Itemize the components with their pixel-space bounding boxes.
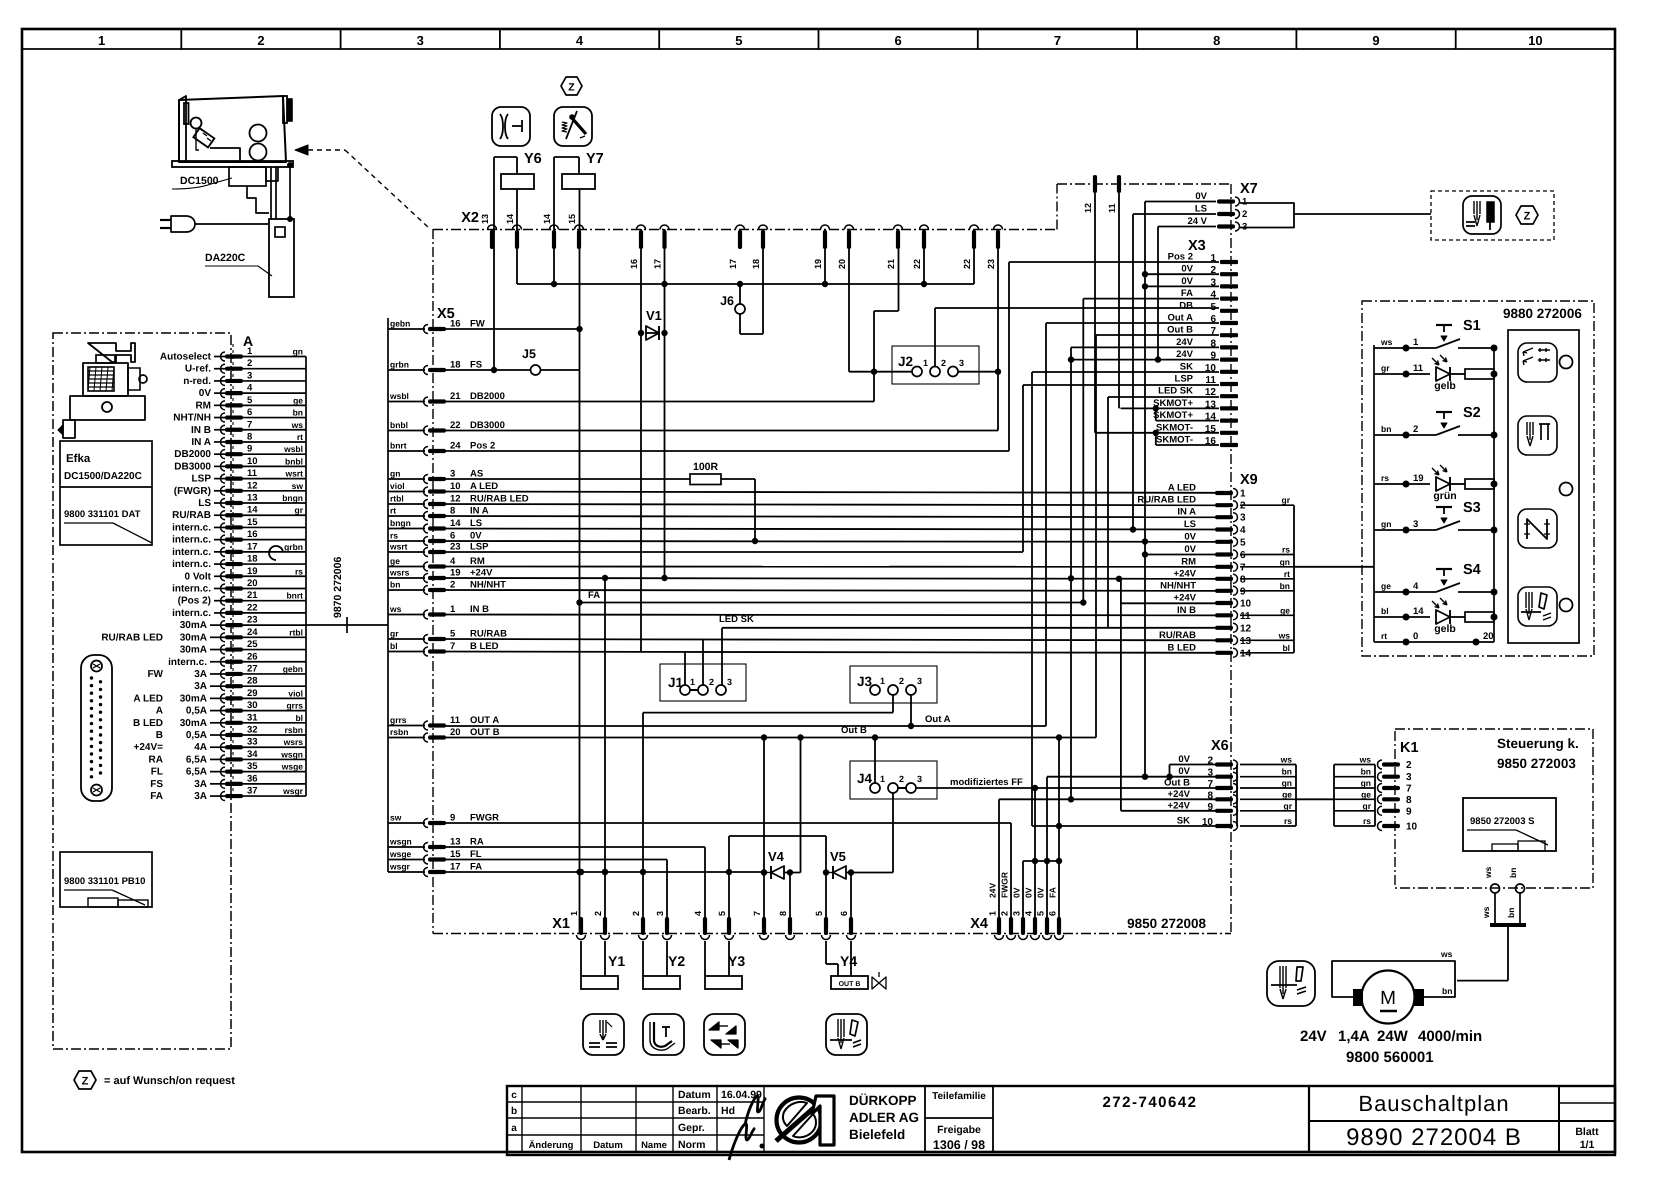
svg-text:RU/RAB: RU/RAB xyxy=(1159,630,1196,641)
connector X1 pin 2 xyxy=(603,917,607,935)
svg-text:wsrt: wsrt xyxy=(389,542,408,552)
connector X3 pin 7 Out B xyxy=(1220,333,1238,337)
svg-text:Y6: Y6 xyxy=(524,151,542,167)
svg-text:rs: rs xyxy=(1284,816,1292,826)
connector X2 pin 17 xyxy=(738,230,742,249)
connector A pin 32 xyxy=(225,733,243,737)
wire X4-2 FWGR riser xyxy=(1010,823,1012,920)
jumper J1 xyxy=(660,664,746,701)
wire X7-2 LS to Z option xyxy=(1133,213,1216,215)
svg-text:18: 18 xyxy=(450,360,461,371)
svg-text:n-red.: n-red. xyxy=(183,376,211,387)
connector X5 pin 2 NH/NHT xyxy=(388,589,425,591)
svg-text:gn: gn xyxy=(390,469,400,479)
svg-text:bl: bl xyxy=(1282,643,1290,653)
svg-text:FS: FS xyxy=(470,360,482,371)
connector A pin 1 xyxy=(225,354,243,358)
svg-text:8: 8 xyxy=(1207,790,1213,801)
svg-text:SKMOT+: SKMOT+ xyxy=(1153,410,1193,421)
svg-text:0V: 0V xyxy=(1184,544,1196,555)
svg-text:FA: FA xyxy=(1048,887,1058,898)
connector X9 pin 5 0V xyxy=(1215,540,1233,544)
connector X1 pin 7 xyxy=(762,917,766,935)
wire DB2000 xyxy=(429,401,874,403)
connector K1 pin 8 xyxy=(1334,798,1375,800)
svg-text:3A: 3A xyxy=(194,669,207,680)
svg-text:+24V: +24V xyxy=(1168,789,1191,800)
svg-text:3A: 3A xyxy=(194,779,207,790)
svg-text:23: 23 xyxy=(986,259,996,269)
svg-text:grbn: grbn xyxy=(390,360,409,370)
svg-text:6: 6 xyxy=(839,911,849,916)
svg-text:viol: viol xyxy=(288,688,303,698)
svg-text:9850 272003: 9850 272003 xyxy=(1497,756,1576,771)
svg-text:LSP: LSP xyxy=(1175,374,1194,385)
svg-text:9870 272006: 9870 272006 xyxy=(332,557,344,618)
svg-text:3: 3 xyxy=(917,676,922,686)
svg-text:Y4: Y4 xyxy=(840,953,857,969)
connector A pin 24 xyxy=(225,635,243,639)
connector X3 pin 3 0V xyxy=(1220,284,1238,288)
motor wiring rectangle xyxy=(1332,961,1455,997)
Duerkopp Adler logo xyxy=(777,1098,822,1143)
svg-text:0V: 0V xyxy=(1036,887,1046,898)
connector A pin 22 xyxy=(225,611,243,615)
svg-text:Teilefamilie: Teilefamilie xyxy=(932,1091,986,1102)
svg-text:FW: FW xyxy=(147,669,163,680)
panel 9880 272006 dashed enclosure xyxy=(1362,301,1594,656)
connector A pin 9 xyxy=(225,452,243,456)
connector X1 pin 3 xyxy=(665,917,669,935)
connector K1 pin 10 xyxy=(1334,825,1375,827)
wire LS xyxy=(429,529,1216,530)
svg-text:21: 21 xyxy=(450,391,461,402)
svg-text:B LED: B LED xyxy=(470,641,499,652)
connector A pin 33 xyxy=(225,745,243,749)
svg-text:1,4A: 1,4A xyxy=(1338,1028,1370,1045)
svg-text:5: 5 xyxy=(735,33,742,48)
svg-text:Gepr.: Gepr. xyxy=(678,1122,705,1134)
svg-text:2: 2 xyxy=(899,676,904,686)
svg-text:6: 6 xyxy=(247,407,252,418)
svg-text:OUT B: OUT B xyxy=(470,727,500,738)
connector X3 pin 5 DB xyxy=(1220,309,1238,313)
connector A pin 13 xyxy=(225,501,243,505)
svg-text:Efka: Efka xyxy=(66,453,91,465)
svg-text:14: 14 xyxy=(247,505,258,516)
X5 cable bus vertical xyxy=(387,318,389,872)
svg-text:3: 3 xyxy=(917,774,922,784)
svg-text:8: 8 xyxy=(778,911,788,916)
wire 0V xyxy=(429,540,1216,543)
connector X2 pin 14 xyxy=(515,230,519,249)
wire SKMOT- 15-16 hook xyxy=(1155,433,1157,445)
svg-text:wsgn: wsgn xyxy=(389,837,412,847)
connector X2 pin 19 xyxy=(823,230,827,249)
svg-text:0V: 0V xyxy=(1181,276,1193,287)
svg-text:23: 23 xyxy=(450,542,461,553)
connector A pin 18 xyxy=(225,562,243,566)
svg-text:29: 29 xyxy=(247,688,258,699)
svg-text:6,5A: 6,5A xyxy=(186,754,207,765)
svg-text:J2: J2 xyxy=(898,354,913,369)
svg-text:rs: rs xyxy=(1381,473,1389,483)
wire +24V second xyxy=(1121,602,1216,604)
svg-text:2: 2 xyxy=(247,358,252,369)
svg-text:7: 7 xyxy=(752,911,762,916)
svg-text:RM: RM xyxy=(1181,556,1196,567)
motor M xyxy=(1362,971,1415,1024)
connector A pin 10 xyxy=(225,464,243,468)
wire J4-2 to V5 xyxy=(892,793,894,873)
machine table bar xyxy=(172,161,293,167)
9800 331101 PB10 box xyxy=(60,852,152,907)
svg-text:7: 7 xyxy=(1210,326,1216,337)
svg-text:rt: rt xyxy=(390,506,396,516)
svg-text:= auf Wunsch/on request: = auf Wunsch/on request xyxy=(104,1075,235,1087)
connector A pin 7 xyxy=(225,428,243,432)
svg-text:rs: rs xyxy=(390,531,398,541)
svg-text:17: 17 xyxy=(728,259,738,269)
wire SKMOT+ 13 xyxy=(1121,407,1220,409)
connector A pin 3 xyxy=(225,379,243,383)
jumper J4 xyxy=(850,761,937,799)
wire X1-5a to V5 link xyxy=(729,835,826,837)
svg-text:U-ref.: U-ref. xyxy=(185,364,211,375)
svg-text:19: 19 xyxy=(1413,473,1424,484)
svg-text:grrs: grrs xyxy=(286,701,303,711)
svg-text:DÜRKOPP: DÜRKOPP xyxy=(849,1093,917,1108)
svg-text:Blatt: Blatt xyxy=(1575,1126,1599,1138)
connector X9 pin 9 NH/NHT xyxy=(1215,589,1233,593)
svg-text:0V: 0V xyxy=(1012,887,1022,898)
connector X5 pin 24 Pos 2 xyxy=(388,450,425,452)
svg-text:DB3000: DB3000 xyxy=(174,461,211,472)
wire pin11 to SKMOT+ xyxy=(1118,193,1120,408)
connector X5 pin 16 FW xyxy=(388,328,425,330)
svg-text:gn: gn xyxy=(1381,519,1391,529)
svg-text:gn: gn xyxy=(1361,778,1371,788)
svg-text:7: 7 xyxy=(1207,779,1213,790)
svg-text:20: 20 xyxy=(450,727,461,738)
svg-text:Bearb.: Bearb. xyxy=(678,1105,711,1117)
svg-text:IN B: IN B xyxy=(470,604,489,615)
connector X5 pin 3 AS xyxy=(388,478,425,480)
svg-text:5: 5 xyxy=(814,911,824,916)
svg-text:+24V: +24V xyxy=(470,568,493,579)
svg-text:+24V=: +24V= xyxy=(134,742,164,753)
svg-text:6: 6 xyxy=(1240,550,1246,561)
svg-text:DB2000: DB2000 xyxy=(174,449,211,460)
connector X5 pin 21 DB2000 xyxy=(388,401,425,403)
wires to motor connector xyxy=(1494,893,1496,923)
connector X4 pin 2 FWGR xyxy=(1009,917,1013,935)
svg-text:ge: ge xyxy=(390,556,400,566)
svg-text:ws: ws xyxy=(1278,630,1291,640)
connector X9 pin 10 +24V xyxy=(1215,601,1233,605)
svg-text:grün: grün xyxy=(1433,490,1456,502)
connector X2 pin 23 xyxy=(996,230,1000,249)
connector X1 pin 1 xyxy=(579,917,583,935)
connector X3 pin 15 SKMOT- xyxy=(1220,431,1238,435)
icon lamp in Z box xyxy=(1463,196,1501,234)
jumper J3 xyxy=(850,666,937,703)
svg-text:RM: RM xyxy=(470,556,485,567)
connector X3 pin 1 Pos 2 xyxy=(1220,260,1238,264)
DC1500 control box under table xyxy=(229,167,266,186)
connector X3 pin 6 Out A xyxy=(1220,321,1238,325)
svg-text:c: c xyxy=(511,1090,517,1101)
svg-text:ge: ge xyxy=(1282,789,1292,799)
connector A pin 26 xyxy=(225,660,243,664)
svg-text:Out A: Out A xyxy=(1167,313,1193,324)
wire X4-6 riser xyxy=(1058,738,1060,921)
wire Y2 left riser xyxy=(642,713,644,934)
svg-text:15: 15 xyxy=(450,849,461,860)
svg-text:17: 17 xyxy=(247,541,258,552)
svg-text:X4: X4 xyxy=(970,916,988,932)
connector A pin 5 xyxy=(225,403,243,407)
svg-text:11: 11 xyxy=(450,715,461,726)
svg-text:rt: rt xyxy=(297,432,303,442)
connector K1 pin 2 xyxy=(1334,764,1375,766)
svg-text:37: 37 xyxy=(247,786,258,797)
svg-text:Freigabe: Freigabe xyxy=(937,1124,981,1136)
svg-text:4: 4 xyxy=(450,556,456,567)
svg-text:28: 28 xyxy=(247,676,258,687)
svg-text:7: 7 xyxy=(1406,784,1412,795)
svg-text:intern.c.: intern.c. xyxy=(172,583,211,594)
svg-text:24V: 24V xyxy=(988,883,998,898)
svg-text:5: 5 xyxy=(450,629,456,640)
svg-text:6: 6 xyxy=(1048,911,1058,916)
connector X1 pin 6 xyxy=(849,917,853,935)
svg-text:8: 8 xyxy=(1406,795,1412,806)
svg-text:rs: rs xyxy=(1363,816,1371,826)
svg-text:RU/RAB LED: RU/RAB LED xyxy=(470,494,529,505)
svg-text:X7: X7 xyxy=(1240,181,1258,197)
svg-text:wsgn: wsgn xyxy=(280,749,303,759)
svg-text:7: 7 xyxy=(1054,33,1061,48)
svg-text:3: 3 xyxy=(450,469,455,480)
svg-text:15: 15 xyxy=(1205,424,1217,435)
svg-text:1: 1 xyxy=(569,911,579,916)
svg-text:2: 2 xyxy=(1242,209,1247,220)
svg-text:Hd: Hd xyxy=(721,1105,735,1117)
jumper J2 xyxy=(892,346,979,384)
connector X4 pin 6 FA xyxy=(1057,917,1061,935)
svg-text:gn: gn xyxy=(293,347,303,357)
svg-text:9850 272003 S: 9850 272003 S xyxy=(1470,816,1534,827)
svg-text:A LED: A LED xyxy=(133,693,163,704)
title block frame xyxy=(507,1086,1615,1155)
svg-text:2: 2 xyxy=(631,911,641,916)
svg-text:LS: LS xyxy=(470,518,482,529)
connector X6 pin 8 +24V xyxy=(1215,797,1233,801)
connector A right bus wire xyxy=(305,357,307,797)
svg-text:X1: X1 xyxy=(552,916,570,932)
svg-text:11: 11 xyxy=(1413,363,1424,374)
svg-text:FS: FS xyxy=(150,779,163,790)
svg-text:Bauschaltplan: Bauschaltplan xyxy=(1358,1091,1509,1116)
connector X3 pin 16 SKMOT- xyxy=(1220,443,1238,447)
wire +24V xyxy=(429,577,1216,580)
svg-text:Datum: Datum xyxy=(678,1089,711,1101)
connector X9 pin 12 xyxy=(1215,626,1233,630)
svg-text:gr: gr xyxy=(295,505,304,515)
connector X6 pin 3 0V xyxy=(1215,775,1233,779)
svg-text:Datum: Datum xyxy=(593,1140,623,1151)
svg-text:15: 15 xyxy=(247,517,258,528)
svg-text:LS: LS xyxy=(1195,204,1207,215)
svg-text:FWGR: FWGR xyxy=(1000,872,1010,898)
svg-text:0 Volt: 0 Volt xyxy=(185,571,212,582)
svg-text:7: 7 xyxy=(247,419,252,430)
svg-text:22: 22 xyxy=(247,602,258,613)
wire RU/RAB LED xyxy=(429,504,1216,505)
svg-text:3A: 3A xyxy=(194,681,207,692)
icon thread trim above Y7 xyxy=(554,107,592,146)
icon needle position under Y1 xyxy=(583,1014,624,1055)
wire X2-22a vertical xyxy=(923,229,925,284)
svg-text:bl: bl xyxy=(390,641,398,651)
svg-text:+24V: +24V xyxy=(1168,800,1191,811)
wire pin12 to SKMOT- xyxy=(1094,193,1096,433)
svg-text:RU/RAB: RU/RAB xyxy=(470,629,507,640)
wire DB from J2-2 to X3-5 xyxy=(934,346,936,367)
svg-text:bngn: bngn xyxy=(282,493,303,503)
svg-text:11: 11 xyxy=(1205,375,1216,386)
svg-text:gr: gr xyxy=(1284,801,1293,811)
connector A pin 8 xyxy=(225,440,243,444)
svg-text:Bielefeld: Bielefeld xyxy=(849,1127,905,1142)
icon zigzag under Y3 xyxy=(704,1014,745,1055)
icon needle and knife under Y4 xyxy=(826,1014,867,1055)
svg-text:gn: gn xyxy=(1280,557,1290,567)
Efka type box xyxy=(60,441,152,545)
svg-text:9880 272006: 9880 272006 xyxy=(1503,306,1582,321)
svg-text:33: 33 xyxy=(247,737,258,748)
svg-text:8: 8 xyxy=(1240,574,1246,585)
svg-text:A: A xyxy=(156,706,163,717)
connector X5 pin 1 IN B xyxy=(388,614,425,616)
svg-text:3: 3 xyxy=(655,911,665,916)
mains plug xyxy=(171,216,195,232)
svg-text:1: 1 xyxy=(450,604,456,615)
svg-text:SK: SK xyxy=(1177,816,1190,827)
svg-text:LED SK: LED SK xyxy=(719,614,754,625)
svg-text:7: 7 xyxy=(1240,562,1246,573)
X9 cable bundle vertical xyxy=(1293,505,1295,653)
svg-text:bn: bn xyxy=(1508,868,1518,878)
connector X7 pin 2 LS xyxy=(1217,212,1235,216)
svg-text:Name: Name xyxy=(641,1140,667,1151)
Steuerung dash-dot enclosure xyxy=(1395,729,1593,888)
svg-text:ws: ws xyxy=(1280,755,1293,765)
connector A pin 28 xyxy=(225,684,243,688)
connector X3 pin 13 SKMOT+ xyxy=(1220,406,1238,410)
svg-text:30mA: 30mA xyxy=(180,645,207,656)
svg-text:RA: RA xyxy=(470,837,484,848)
wire X3-2 0V stub xyxy=(1145,273,1219,275)
svg-text:4: 4 xyxy=(576,33,584,48)
connector A pin 23 xyxy=(225,623,243,627)
wire SKMOT- 15 dot xyxy=(1153,430,1159,436)
connector A pin 6 xyxy=(225,415,243,419)
svg-text:SKMOT+: SKMOT+ xyxy=(1153,398,1193,409)
svg-text:IN A: IN A xyxy=(470,506,489,517)
svg-text:A LED: A LED xyxy=(1168,483,1196,494)
svg-text:rs: rs xyxy=(295,566,303,576)
svg-text:14: 14 xyxy=(450,518,461,529)
svg-text:4: 4 xyxy=(247,383,253,394)
svg-text:NH/NHT: NH/NHT xyxy=(470,580,506,591)
connector A pin 36 xyxy=(225,782,243,786)
svg-text:30mA: 30mA xyxy=(180,620,207,631)
svg-text:2: 2 xyxy=(941,358,946,368)
connector X9 pin 14 B LED xyxy=(1215,651,1233,655)
connector A pin17 twisted-wire hook xyxy=(269,546,283,560)
svg-text:OUT A: OUT A xyxy=(470,715,499,726)
connector X9 pin 8 +24V xyxy=(1215,577,1233,581)
enclosure 9850 272008 border xyxy=(432,229,434,934)
svg-text:rt: rt xyxy=(1381,631,1387,641)
svg-text:DA220C: DA220C xyxy=(205,252,246,264)
machine right edge bars xyxy=(283,96,287,123)
svg-text:OUT B: OUT B xyxy=(839,981,861,988)
connector X3 pin 4 FA xyxy=(1220,297,1238,301)
svg-text:Pos 2: Pos 2 xyxy=(470,441,495,452)
connector A pin 34 xyxy=(225,757,243,761)
svg-text:bn: bn xyxy=(293,408,303,418)
svg-text:5: 5 xyxy=(717,911,727,916)
svg-text:gr: gr xyxy=(1282,495,1291,505)
svg-text:NH/NHT: NH/NHT xyxy=(1160,580,1196,591)
wire 0V link 861 xyxy=(1023,860,1059,862)
svg-text:14: 14 xyxy=(1240,648,1252,659)
svg-text:SKMOT-: SKMOT- xyxy=(1156,422,1193,433)
svg-text:J6: J6 xyxy=(720,294,734,308)
faceplate icon needle stop xyxy=(1518,416,1557,455)
svg-text:B LED: B LED xyxy=(1168,642,1197,653)
svg-text:5: 5 xyxy=(1210,302,1216,313)
connector X6 pin 10 SK xyxy=(1215,824,1233,828)
wire X2-21 vertical to J2 via DB2000 xyxy=(898,229,900,311)
clutch motor drawing xyxy=(88,343,135,362)
svg-text:LSP: LSP xyxy=(192,474,212,485)
svg-text:3: 3 xyxy=(247,370,252,381)
wire AS with resistor 100R xyxy=(429,478,690,480)
ruler column dividers xyxy=(180,29,182,49)
svg-text:3: 3 xyxy=(417,33,424,48)
svg-text:2: 2 xyxy=(593,911,603,916)
svg-text:23: 23 xyxy=(247,615,258,626)
connector X3 pin 10 SK xyxy=(1220,370,1238,374)
wire +24V riser to X9-10 and X6-9 xyxy=(1120,579,1122,811)
svg-text:RU/RAB LED: RU/RAB LED xyxy=(1137,495,1196,506)
connector A pin 30 xyxy=(225,708,243,712)
svg-text:9800 331101 DAT: 9800 331101 DAT xyxy=(64,509,141,520)
connector A pin 21 xyxy=(225,599,243,603)
svg-text:A LED: A LED xyxy=(470,481,498,492)
Z option dashed box xyxy=(1431,191,1554,240)
connector X4 pin 4 0V xyxy=(1033,917,1037,935)
svg-text:X2: X2 xyxy=(461,210,479,226)
svg-text:10: 10 xyxy=(1202,817,1214,828)
svg-text:3: 3 xyxy=(727,677,732,687)
svg-text:bnbl: bnbl xyxy=(285,456,303,466)
svg-text:2: 2 xyxy=(1406,760,1412,771)
